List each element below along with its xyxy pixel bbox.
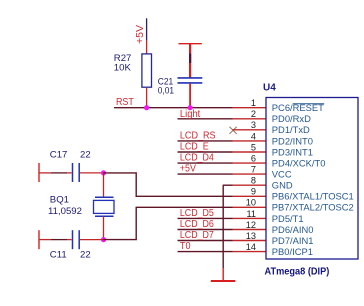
- pin numbers 1-14: [246, 98, 256, 252]
- svg-text:Light: Light: [180, 109, 201, 120]
- no-connect X on pin 3: [230, 127, 237, 134]
- svg-text:PD1/TxD: PD1/TxD: [272, 124, 310, 135]
- wire GND pin 8 horizontal: [223, 184, 233, 186]
- svg-text:PD6/AIN0: PD6/AIN0: [272, 224, 314, 235]
- svg-text:9: 9: [251, 187, 256, 197]
- svg-text:+5V: +5V: [180, 164, 196, 175]
- svg-text:8: 8: [251, 176, 256, 186]
- IC U4 body: [266, 98, 358, 260]
- svg-text:0,01: 0,01: [158, 85, 174, 96]
- svg-text:7: 7: [251, 165, 256, 175]
- net T0 wire (pin 14): [178, 251, 233, 253]
- resistor R27: [142, 54, 152, 87]
- net LCD_D5 wire (pin 11): [178, 217, 233, 219]
- capacitor C11: [39, 230, 104, 249]
- svg-text:11: 11: [246, 209, 256, 219]
- svg-text:PD2/INT0: PD2/INT0: [272, 135, 313, 146]
- svg-text:1: 1: [251, 98, 256, 108]
- net XTAL1 wire to pin 9: [104, 173, 233, 196]
- svg-text:C11: C11: [50, 250, 67, 261]
- junction C11/crystal: [101, 237, 106, 242]
- net LCD_RS wire (pin 4): [178, 140, 233, 142]
- label R27 10K: [114, 53, 132, 74]
- junction C21/RST: [188, 105, 193, 110]
- svg-text:RST: RST: [116, 97, 134, 108]
- net LCD_E wire (pin 5): [178, 151, 233, 153]
- svg-text:LCD_E: LCD_E: [180, 142, 209, 153]
- label C21 0,01: [158, 77, 174, 97]
- svg-text:4: 4: [251, 131, 256, 141]
- svg-text:ATmega8 (DIP): ATmega8 (DIP): [265, 267, 330, 278]
- svg-text:22: 22: [80, 150, 91, 161]
- label BQ1 11,0592: [48, 195, 82, 217]
- pin names: [272, 102, 354, 257]
- net +5V wire (pin 7): [178, 173, 233, 175]
- svg-text:PB7/XTAL2/TOSC2: PB7/XTAL2/TOSC2: [272, 202, 354, 213]
- svg-text:5: 5: [251, 142, 256, 152]
- svg-text:2: 2: [251, 109, 256, 119]
- net LCD_D7 wire (pin 13): [178, 240, 233, 242]
- junction C17/crystal: [101, 170, 106, 175]
- svg-text:PD7/AIN1: PD7/AIN1: [272, 235, 314, 246]
- ground symbol: [211, 280, 236, 282]
- svg-text:PB0/ICP1: PB0/ICP1: [272, 246, 313, 257]
- svg-text:PD3/INT1: PD3/INT1: [272, 146, 313, 157]
- overline on RESET (pin 1): [293, 103, 325, 105]
- svg-text:PB6/XTAL1/TOSC1: PB6/XTAL1/TOSC1: [272, 191, 354, 202]
- svg-text:LCD_D6: LCD_D6: [180, 219, 214, 230]
- power +5V (R27 pull-up): [135, 18, 147, 53]
- net RST wire: [114, 107, 233, 109]
- IC U4 pin stubs 1-14: [233, 108, 267, 252]
- capacitor C21: [178, 78, 203, 108]
- svg-text:LCD_D7: LCD_D7: [180, 230, 214, 241]
- svg-text:6: 6: [251, 154, 256, 164]
- svg-text:C17: C17: [50, 150, 68, 161]
- net LCD_D4 wire (pin 6): [178, 162, 233, 164]
- svg-text:3: 3: [251, 120, 256, 130]
- svg-text:PD5/T1: PD5/T1: [272, 213, 304, 224]
- svg-text:22: 22: [80, 250, 91, 261]
- junction R27/RST: [144, 105, 149, 110]
- svg-text:PD4/XCK/T0: PD4/XCK/T0: [272, 158, 326, 169]
- svg-text:LCD_RS: LCD_RS: [180, 131, 216, 142]
- wire R27 to RST net: [146, 88, 148, 108]
- label C17 22: [50, 150, 91, 161]
- capacitor C17: [39, 163, 104, 182]
- wire GND vertical: [222, 185, 224, 268]
- net Light wire (pin 2): [178, 118, 233, 120]
- svg-text:LCD_D4: LCD_D4: [180, 153, 214, 164]
- wire crystal bottom stub: [103, 216, 105, 239]
- crystal BQ1: [94, 197, 115, 216]
- svg-text:PD0/RxD: PD0/RxD: [272, 113, 311, 124]
- svg-text:14: 14: [246, 242, 256, 252]
- net XTAL2 wire to pin 10: [104, 207, 233, 239]
- net LCD_D6 wire (pin 12): [178, 229, 233, 231]
- svg-text:VCC: VCC: [272, 169, 292, 180]
- svg-text:11,0592: 11,0592: [48, 206, 82, 217]
- svg-text:U4: U4: [263, 82, 276, 93]
- svg-text:T0: T0: [180, 241, 191, 252]
- svg-text:10: 10: [246, 198, 256, 208]
- svg-text:+5V: +5V: [135, 25, 146, 44]
- svg-text:12: 12: [246, 220, 256, 230]
- svg-text:13: 13: [246, 231, 256, 241]
- power bar +5V for C21: [179, 44, 202, 78]
- svg-text:LCD_D5: LCD_D5: [180, 208, 214, 219]
- svg-text:10K: 10K: [114, 63, 132, 74]
- wire crystal top stub: [103, 173, 105, 197]
- label C11 22: [50, 250, 91, 261]
- svg-text:BQ1: BQ1: [50, 195, 69, 206]
- svg-text:GND: GND: [272, 180, 293, 191]
